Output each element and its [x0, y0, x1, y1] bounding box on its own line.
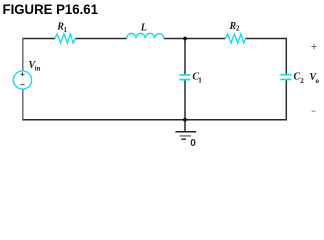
svg-text:1: 1 — [64, 26, 68, 34]
svg-text:2: 2 — [300, 77, 304, 85]
svg-text:2: 2 — [236, 25, 240, 33]
svg-text:o: o — [316, 77, 320, 85]
svg-text:1: 1 — [198, 77, 202, 85]
svg-text:FIGURE P16.61: FIGURE P16.61 — [3, 2, 99, 17]
svg-text:0: 0 — [190, 138, 196, 149]
svg-text:in: in — [35, 64, 41, 72]
svg-text:L: L — [140, 23, 147, 34]
